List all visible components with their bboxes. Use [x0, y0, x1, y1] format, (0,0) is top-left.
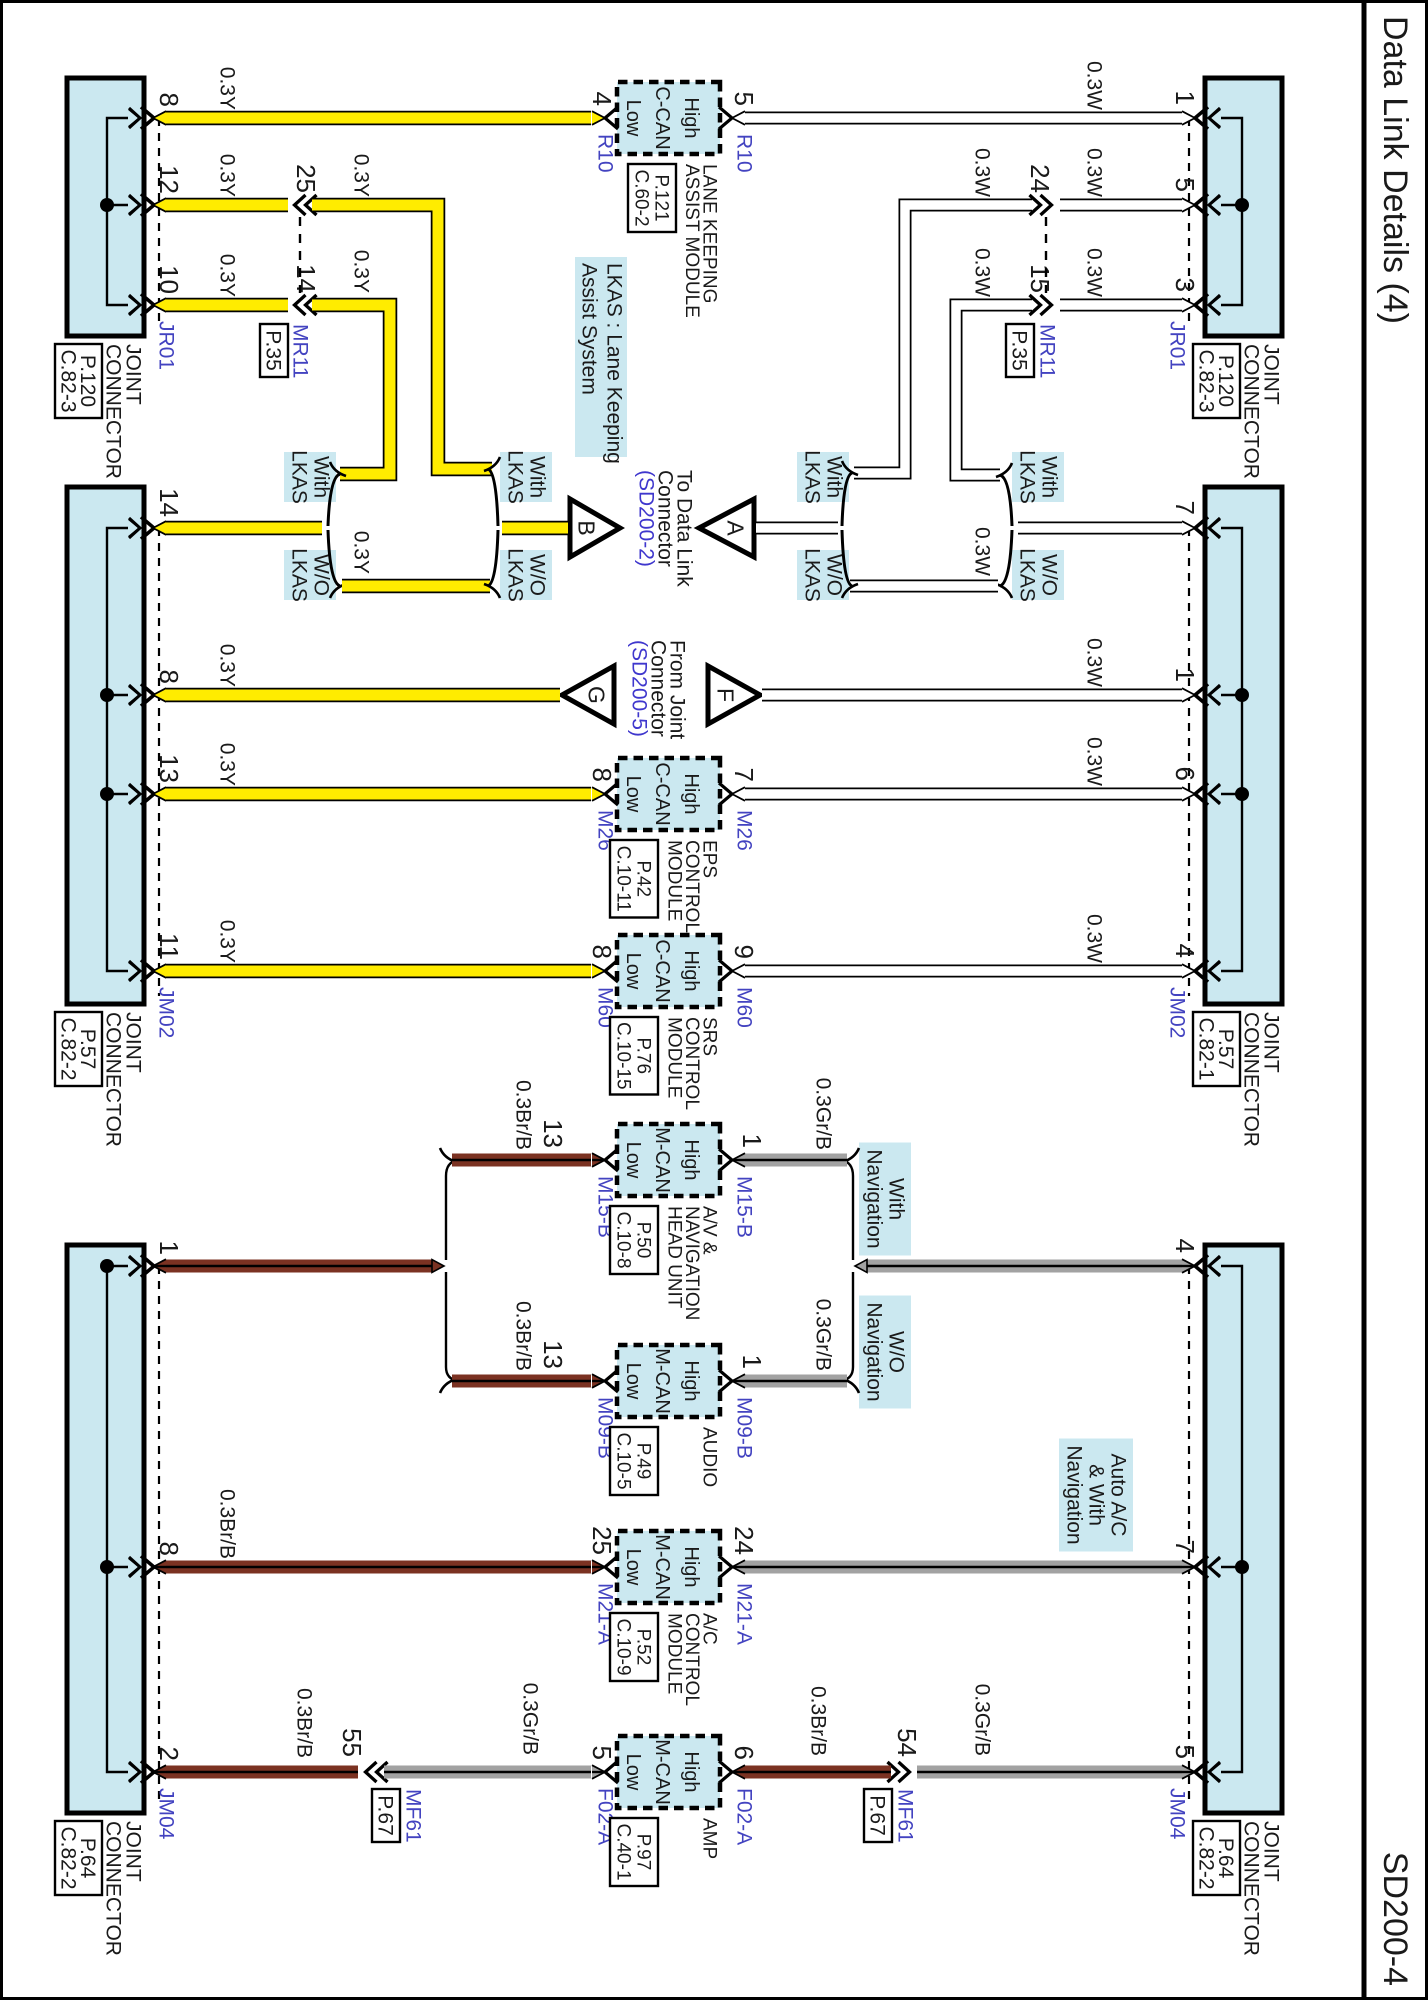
svg-text:High: High [680, 97, 702, 138]
module AMP (F02-A) [617, 1736, 720, 1808]
label W/O LKAS (lower left) [284, 550, 336, 600]
module AMP (F02-A) page/ref box P.97 [610, 1818, 658, 1886]
svg-text:JOINT: JOINT [122, 1012, 145, 1073]
svg-text:8: 8 [154, 93, 184, 107]
svg-text:C.40-1: C.40-1 [613, 1823, 634, 1880]
svg-text:LKAS: LKAS [801, 450, 824, 504]
svg-text:P.67: P.67 [374, 1795, 397, 1836]
svg-text:0.3W: 0.3W [1083, 61, 1106, 110]
svg-text:Navigation: Navigation [1063, 1445, 1086, 1544]
joint connector JM02 (bottom) page/ref box P.57 [55, 1012, 102, 1086]
svg-text:0.3Y: 0.3Y [216, 254, 239, 297]
svg-text:0.3Y: 0.3Y [216, 920, 239, 963]
svg-text:1: 1 [737, 1134, 767, 1148]
module EPS CONTROL MODULE (M26) [617, 758, 720, 830]
svg-text:P.76: P.76 [633, 1037, 654, 1074]
svg-text:0.3Br/B: 0.3Br/B [807, 1686, 830, 1756]
svg-text:0.3W: 0.3W [971, 527, 994, 576]
wire 0.3Gr/B branch to M15-B-1 [745, 1154, 847, 1167]
title bar divider line [1362, 0, 1367, 2000]
wire 0.3W MR11-15 to With-LKAS split of JM02-7 [956, 305, 1032, 475]
label With Navigation [859, 1143, 911, 1256]
inline connector MR11 pin 14 [306, 295, 317, 315]
label With LKAS (upper right) [1012, 452, 1064, 502]
wire 0.3Y JM02-13 to M26-8 (C-CAN Low) [165, 787, 591, 802]
svg-text:0.3Gr/B: 0.3Gr/B [812, 1078, 835, 1150]
svg-text:0.3Br/B: 0.3Br/B [512, 1301, 535, 1371]
wire 0.3W JM02-6 to M26-7 (C-CAN High) [745, 788, 1183, 801]
inline connector MR11 pin 25 [306, 195, 317, 215]
wire 0.3Y JR01-12 to MR11-25 segment [165, 198, 288, 213]
svg-text:Low: Low [622, 776, 644, 813]
svg-text:Data Link Details (4): Data Link Details (4) [1376, 16, 1414, 324]
svg-text:High: High [680, 1360, 702, 1401]
svg-text:G: G [584, 686, 610, 704]
svg-text:CONNECTOR: CONNECTOR [1240, 1821, 1263, 1956]
svg-text:0.3W: 0.3W [1083, 914, 1106, 963]
module EPS CONTROL MODULE (M26) page/ref box P.42 [610, 840, 658, 918]
wire 0.3Gr/B JM04-4 trunk (M-CAN High) [867, 1260, 1183, 1273]
split brace at JM02-14 (With/WO LKAS) [328, 474, 340, 526]
svg-text:0.3W: 0.3W [1083, 248, 1106, 297]
svg-text:Low: Low [622, 1754, 644, 1791]
svg-text:55: 55 [337, 1728, 367, 1757]
svg-text:5: 5 [587, 1746, 617, 1760]
merge brace to triangle B [488, 469, 498, 526]
joint connector JM04 (bottom) page/ref box P.64 [55, 1821, 102, 1895]
module AUDIO (M09-B) page/ref box P.49 [610, 1427, 658, 1495]
svg-text:& With: & With [1085, 1464, 1108, 1526]
dashed link between MR11 pins 24 and 15 [1045, 217, 1047, 293]
svg-text:9: 9 [729, 945, 759, 959]
svg-text:W/O: W/O [823, 554, 846, 596]
svg-text:C.10-11: C.10-11 [613, 846, 634, 912]
svg-text:C-CAN: C-CAN [651, 939, 673, 1002]
svg-text:ASSIST MODULE: ASSIST MODULE [681, 164, 702, 318]
wire 0.3W MR11-24 to With-LKAS merge at A [854, 205, 1032, 473]
wire 0.3Br/B branch to M15-B-13 [452, 1154, 591, 1167]
svg-text:High: High [680, 1546, 702, 1587]
joint connector JR01 (top) [1205, 78, 1282, 336]
svg-text:1: 1 [737, 1355, 767, 1369]
svg-text:MR11: MR11 [1036, 324, 1059, 378]
joint connector JM02 (top) face dashed line [1188, 528, 1190, 996]
svg-text:24: 24 [729, 1526, 759, 1555]
svg-text:W/O: W/O [526, 554, 549, 596]
svg-text:CONNECTOR: CONNECTOR [102, 344, 125, 479]
wire 0.3W merge to triangle A [756, 522, 838, 535]
svg-text:12: 12 [154, 165, 184, 194]
wire 0.3W W/O LKAS bypass (right cluster) [850, 580, 998, 593]
svg-text:Low: Low [622, 100, 644, 137]
page ref box P.35 (lower) [260, 324, 288, 377]
joint connector JR01 (top) face dashed line [1188, 118, 1190, 328]
svg-text:P.52: P.52 [633, 1629, 654, 1666]
svg-text:M-CAN: M-CAN [651, 1534, 673, 1600]
wire 0.3Br/B JM04-1 trunk (M-CAN Low) [165, 1260, 432, 1273]
svg-text:MR11: MR11 [289, 324, 312, 378]
joint connector JM04 (top) face dashed line [1188, 1266, 1190, 1805]
svg-text:MODULE: MODULE [664, 840, 685, 921]
svg-text:CONNECTOR: CONNECTOR [102, 1821, 125, 1956]
wire 0.3Gr/B JM04-5 to MF61-54 (M-CAN High) [917, 1766, 1183, 1779]
label With LKAS (lower right) [797, 452, 849, 502]
svg-text:With: With [885, 1178, 908, 1220]
svg-text:25: 25 [587, 1526, 617, 1555]
svg-text:13: 13 [154, 754, 184, 783]
svg-text:P.67: P.67 [866, 1795, 889, 1836]
svg-text:C-CAN: C-CAN [651, 86, 673, 149]
svg-text:M-CAN: M-CAN [651, 1739, 673, 1805]
svg-text:M-CAN: M-CAN [651, 1127, 673, 1193]
wire 0.3Br/B branch to M09-B-13 [452, 1375, 591, 1388]
split brace at JM02-7 (With/WO LKAS) [1000, 475, 1012, 526]
svg-text:LKAS : Lane Keeping: LKAS : Lane Keeping [603, 263, 626, 464]
inline connector MR11 pin 24 [1030, 195, 1041, 215]
svg-text:JOINT: JOINT [122, 1821, 145, 1882]
svg-text:0.3Y: 0.3Y [350, 531, 373, 574]
svg-text:14: 14 [291, 264, 321, 293]
joint connector JR01 (bottom) page/ref box P.120 [55, 344, 102, 418]
module A/C CONTROL MODULE (M21-A) [617, 1531, 720, 1603]
svg-text:0.3Gr/B: 0.3Gr/B [971, 1684, 994, 1756]
label W/O Navigation [859, 1296, 911, 1409]
svg-text:15: 15 [1025, 264, 1055, 293]
svg-text:C.82-2: C.82-2 [56, 1826, 79, 1889]
svg-text:6: 6 [1170, 767, 1200, 781]
svg-text:6: 6 [729, 1746, 759, 1760]
off-page triangle F (from joint connector) [708, 666, 760, 724]
svg-text:JM02: JM02 [155, 987, 178, 1038]
svg-text:P.42: P.42 [633, 860, 654, 897]
svg-text:P.49: P.49 [633, 1443, 654, 1480]
svg-text:M60: M60 [733, 987, 756, 1028]
svg-text:SD200-4: SD200-4 [1376, 1852, 1414, 1986]
svg-text:2: 2 [154, 1747, 184, 1761]
svg-text:JR01: JR01 [1166, 321, 1189, 370]
svg-text:P.50: P.50 [633, 1222, 654, 1259]
svg-text:LKAS: LKAS [801, 548, 824, 602]
svg-text:B: B [574, 520, 600, 535]
merge brace to triangle A [842, 473, 852, 526]
svg-text:7: 7 [729, 768, 759, 782]
svg-text:0.3Y: 0.3Y [216, 743, 239, 786]
module LANE KEEPING ASSIST MODULE (R10) page/ref box P.121 [628, 164, 676, 232]
module SRS CONTROL MODULE (M60) [617, 935, 720, 1007]
svg-text:0.3Br/B: 0.3Br/B [293, 1688, 316, 1758]
svg-text:C.10-15: C.10-15 [613, 1022, 634, 1090]
joint connector JR01 (bottom) face dashed line [158, 118, 160, 328]
wire 0.3Y JR01-10 to MR11-14 segment [165, 298, 288, 313]
svg-text:10: 10 [154, 265, 184, 294]
dashed link between MR11 pins 25 and 14 [299, 217, 301, 293]
svg-text:5: 5 [1170, 178, 1200, 192]
svg-text:7: 7 [1170, 1540, 1200, 1554]
svg-text:C.10-9: C.10-9 [613, 1618, 634, 1675]
module A/V & NAVIGATION HEAD UNIT (M15-B) page/ref box P.50 [610, 1206, 658, 1274]
wire 0.3Br/B MF61-54 to F02-A-6 [745, 1766, 891, 1779]
joint connector JM02 (bottom) [67, 487, 144, 1004]
svg-text:0.3Y: 0.3Y [350, 154, 373, 197]
svg-text:0.3W: 0.3W [1083, 148, 1106, 197]
svg-text:C-CAN: C-CAN [651, 762, 673, 825]
svg-text:AMP: AMP [699, 1818, 720, 1859]
svg-text:JR01: JR01 [155, 321, 178, 370]
wire 0.3Y MR11-25 to With-LKAS merge at B [312, 205, 492, 469]
svg-text:M26: M26 [733, 810, 756, 851]
svg-text:CONNECTOR: CONNECTOR [1240, 1012, 1263, 1147]
wire 0.3Br/B JM04-8 to M21-A-25 (M-CAN Low) [165, 1561, 591, 1574]
joint connector JM02 (top) [1205, 487, 1282, 1004]
svg-text:(SD200-5): (SD200-5) [628, 640, 651, 737]
joint connector JM04 (top) page/ref box P.64 [1193, 1821, 1240, 1895]
wire 0.3W JM02-4 to M60-9 (C-CAN High) [745, 965, 1183, 978]
svg-text:JOINT: JOINT [1260, 1012, 1283, 1073]
wire 0.3Gr/B branch to M09-B-1 [745, 1375, 847, 1388]
wire 0.3Y JM02-8 to triangle G (C-CAN Low) [165, 688, 560, 703]
svg-text:JOINT: JOINT [122, 344, 145, 405]
branch line to M15-B and M09-B (high side) [841, 1160, 853, 1260]
label With LKAS (upper left) [500, 452, 552, 502]
svg-text:0.3W: 0.3W [1083, 737, 1106, 786]
svg-text:M09-B: M09-B [733, 1397, 756, 1459]
svg-text:3: 3 [1170, 278, 1200, 292]
joint connector JM04 (bottom) face dashed line [158, 1266, 160, 1805]
wire 0.3Y MR11-14 to With-LKAS split of JM02-14 [312, 305, 390, 474]
svg-text:0.3Gr/B: 0.3Gr/B [519, 1683, 542, 1755]
wire 0.3Y JR01-8 to R10-4 (C-CAN Low) [165, 111, 591, 126]
svg-text:High: High [680, 950, 702, 991]
svg-text:With: With [310, 456, 333, 498]
svg-text:MF61: MF61 [402, 1789, 425, 1843]
wire 0.3Y JM02-14 trunk [165, 521, 322, 536]
wire 0.3Y JM02-11 to M60-8 (C-CAN Low) [165, 964, 591, 979]
svg-text:24: 24 [1025, 164, 1055, 193]
svg-text:Low: Low [622, 953, 644, 990]
svg-text:LKAS: LKAS [504, 548, 527, 602]
svg-text:LKAS: LKAS [1016, 450, 1039, 504]
svg-text:F02-A: F02-A [733, 1788, 756, 1845]
svg-text:C.82-1: C.82-1 [1194, 1017, 1217, 1080]
page ref box P.35 (upper) [1006, 324, 1034, 377]
svg-text:0.3Br/B: 0.3Br/B [512, 1080, 535, 1150]
joint connector JM04 (bottom) [67, 1245, 144, 1813]
svg-text:CONNECTOR: CONNECTOR [102, 1012, 125, 1147]
svg-text:C.10-5: C.10-5 [613, 1432, 634, 1489]
svg-text:54: 54 [892, 1728, 922, 1757]
wire 0.3W JR01-1 to R10-5 (C-CAN High) [745, 112, 1183, 125]
module AUDIO (M09-B) [617, 1345, 720, 1417]
svg-text:(SD200-2): (SD200-2) [635, 470, 658, 567]
module SRS CONTROL MODULE (M60) page/ref box P.76 [610, 1017, 658, 1095]
svg-text:P.121: P.121 [651, 174, 672, 221]
svg-text:0.3Y: 0.3Y [350, 250, 373, 293]
svg-text:C.82-2: C.82-2 [1194, 1826, 1217, 1889]
svg-text:C.82-3: C.82-3 [56, 349, 79, 412]
wire 0.3Gr/B JM04-7 to M21-A-24 (M-CAN High) [745, 1561, 1183, 1574]
wire 0.3Br/B JM04-2 to MF61-55 (M-CAN Low) [165, 1766, 358, 1779]
note LKAS : Lane Keeping Assist System [575, 257, 627, 457]
svg-text:LKAS: LKAS [504, 450, 527, 504]
svg-text:MF61: MF61 [894, 1789, 917, 1843]
joint connector JM02 (bottom) face dashed line [158, 528, 160, 996]
page ref box P.67 (upper) [864, 1789, 892, 1842]
svg-text:M-CAN: M-CAN [651, 1348, 673, 1414]
svg-text:5: 5 [729, 92, 759, 106]
svg-text:With: With [1038, 456, 1061, 498]
off-page triangle A (to data link connector) [699, 499, 754, 557]
svg-text:8: 8 [587, 768, 617, 782]
svg-text:Navigation: Navigation [863, 1149, 886, 1248]
module A/C CONTROL MODULE (M21-A) page/ref box P.52 [610, 1613, 658, 1681]
wire 0.3Gr/B MF61-55 to F02-A-5 [384, 1766, 591, 1779]
label W/O LKAS (lower right) [797, 550, 849, 600]
svg-text:JM02: JM02 [1166, 987, 1189, 1038]
svg-text:R10: R10 [733, 134, 756, 173]
svg-text:0.3Gr/B: 0.3Gr/B [812, 1299, 835, 1371]
svg-text:8: 8 [154, 1542, 184, 1556]
svg-text:13: 13 [538, 1340, 568, 1369]
svg-text:JM04: JM04 [155, 1788, 178, 1840]
page ref box P.67 (lower) [372, 1789, 400, 1842]
svg-text:CONNECTOR: CONNECTOR [1240, 344, 1263, 479]
svg-text:AUDIO: AUDIO [699, 1427, 720, 1487]
svg-text:W/O: W/O [1038, 554, 1061, 596]
svg-text:A: A [723, 520, 749, 536]
off-page triangle G (from joint connector) [562, 666, 614, 724]
module LANE KEEPING ASSIST MODULE (R10) [617, 82, 720, 154]
svg-text:4: 4 [1170, 1239, 1200, 1253]
svg-text:11: 11 [154, 933, 184, 960]
svg-text:R10: R10 [594, 134, 617, 173]
svg-text:0.3Y: 0.3Y [216, 154, 239, 197]
svg-text:C.60-2: C.60-2 [631, 169, 652, 226]
svg-text:4: 4 [1170, 944, 1200, 958]
svg-text:1: 1 [1170, 668, 1200, 682]
wire 0.3W JM02-1 to triangle F (C-CAN High) [762, 689, 1183, 702]
joint connector JM04 (top) [1205, 1245, 1282, 1813]
inline connector MR11 pin 15 [1030, 295, 1041, 315]
svg-text:MODULE: MODULE [664, 1613, 685, 1694]
svg-text:M21-A: M21-A [733, 1583, 756, 1645]
svg-text:0.3Br/B: 0.3Br/B [216, 1489, 239, 1559]
wire 0.3W JM02-7 trunk [1018, 522, 1183, 535]
svg-text:With: With [526, 456, 549, 498]
svg-text:HEAD UNIT: HEAD UNIT [664, 1206, 685, 1309]
label W/O LKAS (upper right) [1012, 550, 1064, 600]
svg-text:P.97: P.97 [633, 1834, 654, 1871]
svg-text:F: F [712, 688, 738, 702]
svg-text:MODULE: MODULE [664, 1017, 685, 1098]
svg-text:JOINT: JOINT [1260, 344, 1283, 405]
svg-text:High: High [680, 1751, 702, 1792]
svg-text:C.82-3: C.82-3 [1194, 349, 1217, 412]
svg-text:25: 25 [291, 164, 321, 193]
svg-text:4: 4 [587, 92, 617, 106]
svg-text:14: 14 [154, 488, 184, 517]
svg-text:C.10-8: C.10-8 [613, 1211, 634, 1268]
svg-text:0.3Y: 0.3Y [216, 644, 239, 687]
svg-text:JM04: JM04 [1166, 1788, 1189, 1840]
svg-text:LKAS: LKAS [288, 450, 311, 504]
svg-text:C.82-2: C.82-2 [56, 1017, 79, 1080]
wire 0.3W JR01-3 to MR11-15 segment [1060, 299, 1183, 312]
svg-text:Low: Low [622, 1363, 644, 1400]
svg-text:5: 5 [1170, 1745, 1200, 1759]
svg-text:1: 1 [154, 1241, 184, 1255]
svg-text:13: 13 [538, 1119, 568, 1148]
joint connector JM02 (top) page/ref box P.57 [1193, 1012, 1240, 1086]
svg-text:8: 8 [587, 945, 617, 959]
wire 0.3Y W/O LKAS bypass (left cluster) [342, 579, 490, 594]
svg-text:Auto A/C: Auto A/C [1107, 1454, 1130, 1537]
svg-text:0.3Y: 0.3Y [216, 67, 239, 110]
svg-text:P.35: P.35 [1008, 330, 1031, 371]
svg-text:M15-B: M15-B [733, 1176, 756, 1238]
wire 0.3W JR01-5 to MR11-24 segment [1060, 199, 1183, 212]
inline connector MF61 pin 54 [888, 1762, 899, 1782]
svg-text:8: 8 [154, 670, 184, 684]
label With LKAS (lower left) [284, 452, 336, 502]
svg-text:1: 1 [1170, 91, 1200, 105]
off-page triangle B (to data link connector) [570, 499, 620, 557]
svg-text:High: High [680, 1139, 702, 1180]
svg-text:Low: Low [622, 1549, 644, 1586]
module A/V & NAVIGATION HEAD UNIT (M15-B) [617, 1124, 720, 1196]
label W/O LKAS (upper left) [500, 550, 552, 600]
svg-text:0.3W: 0.3W [1083, 638, 1106, 687]
svg-text:Assist System: Assist System [578, 263, 601, 395]
inline connector MF61 pin 55 [377, 1762, 388, 1782]
svg-text:Low: Low [622, 1142, 644, 1179]
branch line to M15-B and M09-B (low side) [446, 1160, 458, 1260]
svg-text:0.3W: 0.3W [971, 148, 994, 197]
svg-text:LKAS: LKAS [1016, 548, 1039, 602]
svg-text:0.3W: 0.3W [971, 248, 994, 297]
svg-text:JOINT: JOINT [1260, 1821, 1283, 1882]
svg-text:High: High [680, 773, 702, 814]
svg-text:W/O: W/O [885, 1331, 908, 1373]
joint connector JR01 (top) page/ref box P.120 [1193, 344, 1240, 418]
svg-text:LKAS: LKAS [288, 548, 311, 602]
joint connector JR01 (bottom) [67, 78, 144, 336]
svg-text:7: 7 [1170, 501, 1200, 515]
svg-text:Navigation: Navigation [863, 1302, 886, 1401]
note Auto A/C & With Navigation [1059, 1439, 1133, 1552]
wire 0.3Y merge to triangle B [502, 521, 568, 536]
svg-text:P.35: P.35 [262, 330, 285, 371]
